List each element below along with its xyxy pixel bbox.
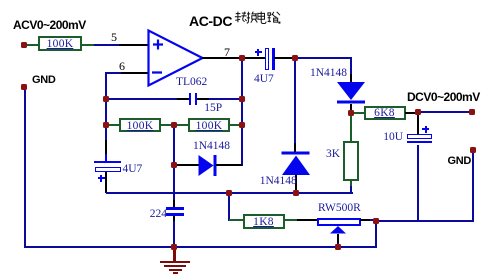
label GND left xyxy=(32,74,56,86)
capacitor C5 10U (polarized) xyxy=(417,113,419,134)
node 6K8 right xyxy=(415,109,421,115)
label GND right xyxy=(448,155,472,167)
wire left ground column xyxy=(24,86,26,247)
node 15P right xyxy=(239,96,245,102)
label 224 xyxy=(150,208,167,220)
node wiper on rail xyxy=(335,244,341,250)
wire lower rail y=192 xyxy=(106,192,353,194)
node DCV terminal xyxy=(469,109,475,115)
label 1N4148 top xyxy=(310,67,347,79)
resistor R5 3K xyxy=(350,113,352,141)
node op-amp output xyxy=(239,55,245,61)
ground (earth) symbol xyxy=(173,247,175,262)
capacitor C4 224 xyxy=(166,207,184,210)
wire pin5 xyxy=(94,44,120,46)
wire feedback column vertical xyxy=(105,72,107,142)
resistor R4 6K8 xyxy=(350,112,364,114)
diode D1 1N4148 (down) xyxy=(350,74,352,82)
capacitor C2 15P xyxy=(177,98,189,100)
capacitor C1 4U7 (top, polarized) xyxy=(243,57,265,59)
node GND right terminal xyxy=(470,147,476,153)
label 1N4148 (D2) xyxy=(260,175,297,187)
wire 1K8 branch vertical xyxy=(228,192,230,221)
label 1N4148 (D3) xyxy=(193,140,230,152)
label TL062 xyxy=(176,76,207,88)
resistor R6 1K8 xyxy=(229,219,243,221)
wire bottom rail xyxy=(24,246,377,248)
pin 6 (op-amp -in) xyxy=(119,72,149,74)
wire node middle xyxy=(161,124,188,126)
label RW500R xyxy=(318,202,361,214)
capacitor C3 4U7 (left, polarized) xyxy=(105,140,107,155)
pin 7 output xyxy=(224,45,230,60)
title AC-DC xyxy=(189,13,232,29)
wire to diode column xyxy=(295,57,352,59)
wire right ground column xyxy=(472,150,474,222)
node 100K left xyxy=(103,122,109,128)
input label ACV0~200mV xyxy=(13,18,86,32)
node 15P left xyxy=(103,96,109,102)
wire output column down xyxy=(241,58,243,166)
node GND left terminal xyxy=(21,84,27,90)
node diode D1 out xyxy=(348,110,354,116)
potentiometer RW1 RW500R xyxy=(297,219,317,221)
node ACV input terminal xyxy=(21,42,27,48)
label 10U xyxy=(383,131,403,143)
wire middle column lower + capacitor C4 224 xyxy=(173,166,175,201)
wire pot right down xyxy=(375,220,377,248)
node pot right xyxy=(373,218,379,224)
node earth junction xyxy=(171,244,177,250)
node D2 anode on rail xyxy=(293,190,299,196)
pin number 6 xyxy=(119,59,125,74)
node D3 anode xyxy=(171,162,177,168)
pin 5 (op-amp +in) xyxy=(119,44,149,46)
resistor R3 100K xyxy=(188,118,230,132)
label 4U7 left xyxy=(123,163,143,175)
node after C1 xyxy=(292,55,298,61)
node 100K right xyxy=(239,122,245,128)
label 3K xyxy=(326,148,340,160)
diode D2 1N4148 (up, left column) xyxy=(294,58,296,144)
label DCV0~200mV xyxy=(407,90,480,104)
wire to DCV terminal xyxy=(418,111,472,113)
label 15P xyxy=(204,102,222,114)
node 1K8 branch xyxy=(226,190,232,196)
pin number 5 xyxy=(111,30,117,45)
wire right bottom rail xyxy=(376,220,473,222)
label 4U7 top xyxy=(254,73,274,85)
wire middle column upper xyxy=(173,125,175,167)
resistor R1 100K (input) xyxy=(25,44,39,46)
diode D3 1N4148 (right) xyxy=(174,164,199,166)
wire pin6 to feedback column xyxy=(105,72,121,74)
resistor R2 100K xyxy=(106,124,120,126)
